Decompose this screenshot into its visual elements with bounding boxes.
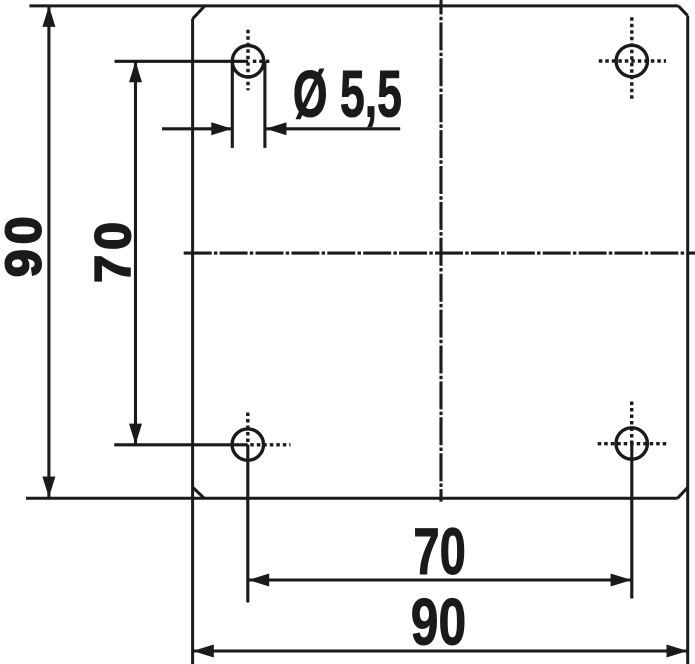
svg-text:Ø 5,5: Ø 5,5 — [293, 57, 402, 131]
svg-text:90: 90 — [0, 211, 52, 277]
svg-text:90: 90 — [411, 586, 466, 659]
svg-text:70: 70 — [85, 217, 141, 283]
svg-text:70: 70 — [413, 515, 465, 589]
